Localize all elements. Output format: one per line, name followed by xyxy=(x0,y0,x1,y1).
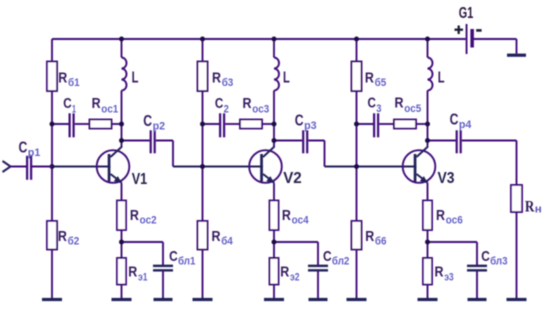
svg-text:б2: б2 xyxy=(68,236,80,248)
svg-text:б5: б5 xyxy=(375,77,387,89)
svg-text:oc6: oc6 xyxy=(446,215,463,227)
svg-text:R: R xyxy=(243,95,252,112)
svg-text:R: R xyxy=(130,207,139,224)
svg-text:R: R xyxy=(92,95,101,112)
svg-text:p4: p4 xyxy=(459,119,472,131)
svg-text:R: R xyxy=(525,199,535,216)
svg-text:C: C xyxy=(19,140,28,157)
svg-text:C: C xyxy=(63,96,72,112)
svg-text:3: 3 xyxy=(376,103,381,115)
svg-text:p3: p3 xyxy=(304,120,317,132)
svg-text:oc4: oc4 xyxy=(292,215,310,227)
svg-text:R: R xyxy=(395,95,404,112)
svg-text:L: L xyxy=(132,70,139,87)
svg-text:C: C xyxy=(481,248,490,265)
svg-text:V1: V1 xyxy=(132,171,148,188)
svg-text:C: C xyxy=(143,113,152,130)
svg-text:oc5: oc5 xyxy=(404,103,421,115)
svg-text:L: L xyxy=(438,69,445,86)
svg-text:б4: б4 xyxy=(221,236,233,248)
svg-text:R: R xyxy=(282,207,291,224)
svg-text:бл3: бл3 xyxy=(490,256,508,268)
svg-text:C: C xyxy=(169,248,178,265)
svg-text:L: L xyxy=(283,70,290,87)
svg-text:б3: б3 xyxy=(222,77,234,89)
svg-text:R: R xyxy=(280,264,289,281)
svg-text:б6: б6 xyxy=(375,236,387,248)
svg-text:oc2: oc2 xyxy=(140,215,157,227)
svg-text:R: R xyxy=(365,69,374,86)
svg-text:R: R xyxy=(365,228,374,245)
svg-text:G1: G1 xyxy=(459,5,474,22)
svg-text:V3: V3 xyxy=(438,170,455,187)
svg-text:R: R xyxy=(435,264,444,281)
svg-text:э2: э2 xyxy=(290,272,300,284)
svg-text:R: R xyxy=(212,228,221,245)
svg-text:V2: V2 xyxy=(283,170,302,187)
svg-text:C: C xyxy=(215,96,224,112)
svg-text:C: C xyxy=(368,96,377,112)
svg-text:oc1: oc1 xyxy=(101,104,118,116)
svg-text:R: R xyxy=(436,207,445,224)
svg-text:p2: p2 xyxy=(153,121,166,133)
svg-text:R: R xyxy=(58,69,67,86)
svg-text:C: C xyxy=(323,248,332,265)
svg-text:p1: p1 xyxy=(28,147,41,159)
svg-text:э1: э1 xyxy=(138,272,148,284)
svg-text:бл2: бл2 xyxy=(332,256,350,268)
svg-text:R: R xyxy=(212,69,221,86)
svg-text:C: C xyxy=(295,113,304,130)
svg-text:R: R xyxy=(128,264,137,281)
svg-text:C: C xyxy=(450,112,459,129)
svg-text:б1: б1 xyxy=(68,77,80,89)
svg-text:R: R xyxy=(58,228,67,245)
svg-text:н: н xyxy=(535,204,542,216)
svg-text:2: 2 xyxy=(224,104,229,116)
svg-text:1: 1 xyxy=(72,104,76,116)
svg-text:бл1: бл1 xyxy=(178,256,196,268)
svg-text:э3: э3 xyxy=(444,272,454,284)
svg-text:oc3: oc3 xyxy=(252,104,269,116)
